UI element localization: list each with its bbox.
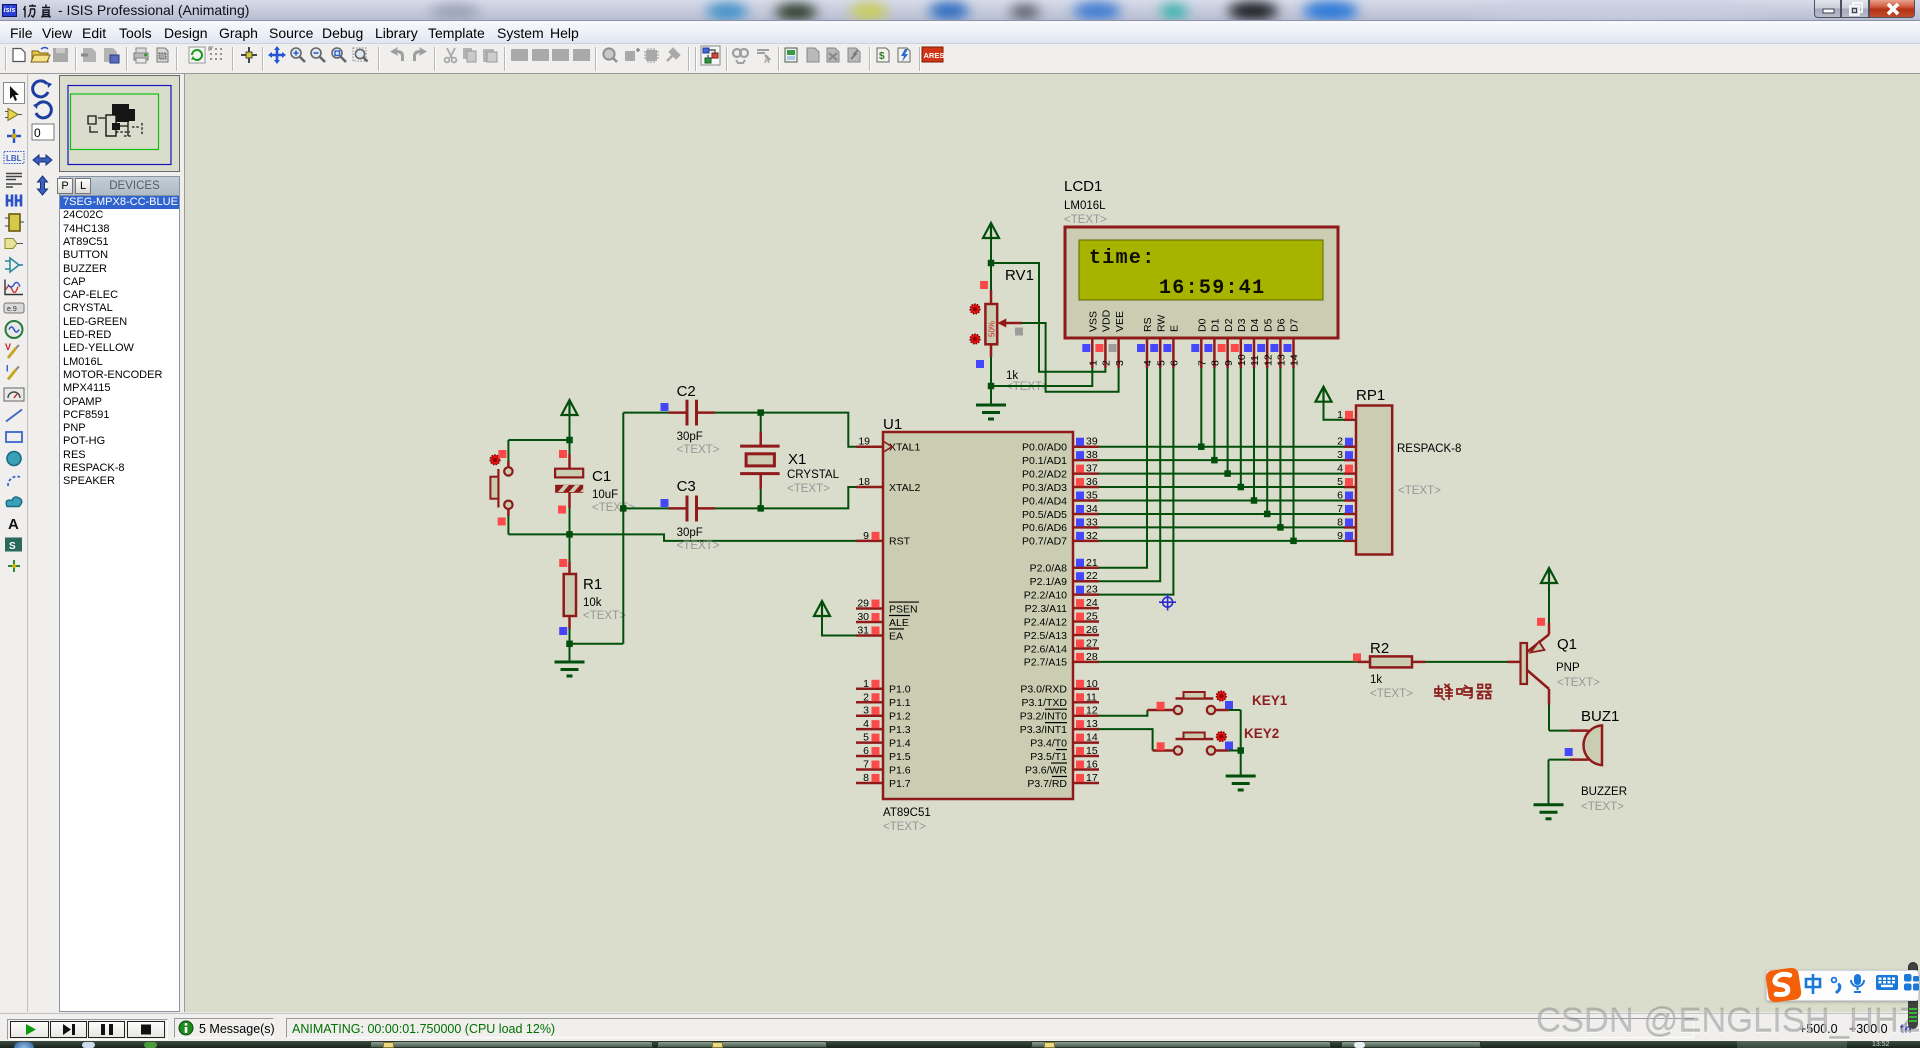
svg-text:6: 6 — [1169, 360, 1181, 366]
svg-text:29: 29 — [857, 598, 869, 610]
svg-text:5: 5 — [863, 732, 869, 744]
svg-text:P0.5/AD5: P0.5/AD5 — [1022, 509, 1067, 521]
svg-text:P1.5: P1.5 — [889, 751, 911, 763]
svg-text:34: 34 — [1086, 503, 1098, 515]
svg-text:ARES: ARES — [924, 51, 945, 60]
svg-text:Q1: Q1 — [1557, 636, 1577, 653]
svg-text:17: 17 — [1086, 772, 1098, 784]
svg-text:P2.4/A12: P2.4/A12 — [1024, 616, 1067, 628]
svg-text:36: 36 — [1086, 476, 1098, 488]
svg-text:S: S — [9, 541, 16, 552]
svg-text:V: V — [5, 342, 11, 352]
svg-text:VSS: VSS — [1088, 311, 1100, 332]
svg-text:LBL: LBL — [6, 154, 22, 163]
svg-text:P2.2/A10: P2.2/A10 — [1024, 589, 1067, 601]
svg-text:KEY2: KEY2 — [1244, 726, 1279, 741]
svg-text:<TEXT>: <TEXT> — [787, 483, 830, 495]
svg-text:RST: RST — [889, 536, 911, 548]
svg-text:P1.4: P1.4 — [889, 737, 911, 749]
svg-text:<TEXT>: <TEXT> — [883, 821, 926, 833]
svg-text:D3: D3 — [1236, 318, 1248, 332]
svg-text:<TEXT>: <TEXT> — [1557, 677, 1600, 689]
svg-text:LM016L: LM016L — [1064, 200, 1106, 212]
svg-text:XTAL1: XTAL1 — [889, 442, 920, 454]
svg-text:P3.2/INT0: P3.2/INT0 — [1020, 711, 1067, 723]
svg-text:3: 3 — [863, 705, 869, 717]
svg-text:13: 13 — [1086, 718, 1098, 730]
svg-text:P3.1/TXD: P3.1/TXD — [1021, 697, 1067, 709]
svg-text:<TEXT>: <TEXT> — [1581, 801, 1624, 813]
svg-text:P1.6: P1.6 — [889, 764, 911, 776]
svg-text:4: 4 — [1142, 360, 1154, 366]
svg-text:P3.5/T1: P3.5/T1 — [1030, 751, 1067, 763]
svg-text:RS: RS — [1142, 317, 1154, 332]
svg-text:21: 21 — [1086, 557, 1098, 569]
svg-text:<TEXT>: <TEXT> — [1370, 688, 1413, 700]
svg-text:P0.2/AD2: P0.2/AD2 — [1022, 468, 1067, 480]
svg-text:P0.1/AD1: P0.1/AD1 — [1022, 455, 1067, 467]
svg-text:12: 12 — [1086, 705, 1098, 717]
svg-text:e.9: e.9 — [7, 306, 17, 313]
svg-text:P0.3/AD3: P0.3/AD3 — [1022, 482, 1067, 494]
svg-text:LCD1: LCD1 — [1064, 178, 1102, 195]
svg-text:30: 30 — [857, 611, 869, 623]
svg-text:7: 7 — [863, 759, 869, 771]
svg-text:P0.6/AD6: P0.6/AD6 — [1022, 522, 1067, 534]
svg-text:P2.3/A11: P2.3/A11 — [1025, 603, 1068, 615]
svg-text:E: E — [1169, 325, 1181, 332]
svg-text:RESPACK-8: RESPACK-8 — [1397, 443, 1461, 455]
svg-text:P2.5/A13: P2.5/A13 — [1024, 630, 1067, 642]
svg-text:<TEXT>: <TEXT> — [677, 540, 720, 552]
svg-text:I: I — [6, 364, 9, 374]
svg-text:BUZZER: BUZZER — [1581, 786, 1627, 798]
svg-text:P0.7/AD7: P0.7/AD7 — [1022, 536, 1067, 548]
svg-text:R1: R1 — [583, 576, 602, 593]
svg-text:C2: C2 — [677, 383, 696, 400]
svg-text:13: 13 — [1276, 354, 1288, 366]
svg-text:14: 14 — [1289, 354, 1301, 366]
svg-text:18: 18 — [858, 476, 870, 488]
svg-text:P2.0/A8: P2.0/A8 — [1030, 563, 1068, 575]
svg-text:2: 2 — [1101, 360, 1113, 366]
svg-text:$: $ — [879, 51, 885, 62]
svg-text:3: 3 — [1114, 360, 1126, 366]
svg-text:8: 8 — [1210, 360, 1222, 366]
svg-text:P3.7/RD: P3.7/RD — [1027, 778, 1067, 790]
svg-text:D4: D4 — [1249, 318, 1261, 332]
svg-text:27: 27 — [1086, 637, 1098, 649]
svg-text:D5: D5 — [1262, 318, 1274, 332]
svg-text:D0: D0 — [1197, 318, 1209, 332]
svg-text:32: 32 — [1086, 530, 1098, 542]
svg-text:P3.0/RXD: P3.0/RXD — [1020, 684, 1067, 696]
svg-text:1: 1 — [1088, 360, 1100, 366]
svg-text:38: 38 — [1086, 449, 1098, 461]
svg-text:P1.2: P1.2 — [889, 711, 911, 723]
svg-text:1k: 1k — [1370, 674, 1382, 686]
svg-text:1: 1 — [863, 678, 869, 690]
svg-text:14: 14 — [1086, 732, 1098, 744]
svg-text:16: 16 — [1086, 759, 1098, 771]
svg-text:16:59:41: 16:59:41 — [1159, 277, 1265, 300]
svg-text:C1: C1 — [592, 468, 611, 485]
svg-text:U1: U1 — [883, 416, 902, 433]
svg-text:AT89C51: AT89C51 — [883, 807, 931, 819]
svg-text:P1.7: P1.7 — [889, 778, 911, 790]
svg-text:10: 10 — [1236, 354, 1248, 366]
svg-text:time:: time: — [1089, 247, 1156, 270]
svg-text:EA: EA — [889, 630, 903, 642]
svg-text:50%: 50% — [988, 321, 997, 337]
svg-text:9: 9 — [863, 530, 869, 542]
svg-text:39: 39 — [1086, 436, 1098, 448]
svg-text:C3: C3 — [677, 478, 696, 495]
svg-text:ALE: ALE — [889, 617, 909, 629]
svg-text:PNP: PNP — [1556, 662, 1580, 674]
svg-text:30pF: 30pF — [677, 431, 703, 443]
svg-text:7: 7 — [1197, 360, 1209, 366]
svg-text:VDD: VDD — [1101, 309, 1113, 332]
svg-text:D2: D2 — [1223, 318, 1235, 332]
svg-text:P3.4/T0: P3.4/T0 — [1030, 737, 1067, 749]
svg-text:VEE: VEE — [1114, 311, 1126, 332]
svg-text:4: 4 — [863, 718, 869, 730]
svg-text:24: 24 — [1086, 597, 1098, 609]
svg-text:25: 25 — [1086, 611, 1098, 623]
svg-text:5: 5 — [1155, 360, 1167, 366]
svg-text:15: 15 — [1086, 745, 1098, 757]
svg-text:<TEXT>: <TEXT> — [1064, 214, 1107, 226]
svg-text:22: 22 — [1086, 570, 1098, 582]
svg-text:26: 26 — [1086, 624, 1098, 636]
svg-text:11: 11 — [1086, 691, 1097, 703]
svg-text:6: 6 — [863, 745, 869, 757]
svg-text:31: 31 — [857, 624, 869, 636]
svg-text:R2: R2 — [1370, 640, 1389, 657]
svg-text:P3.3/INT1: P3.3/INT1 — [1020, 724, 1067, 736]
svg-text:2: 2 — [863, 691, 869, 703]
svg-text:<TEXT>: <TEXT> — [677, 444, 720, 456]
svg-text:XTAL2: XTAL2 — [889, 482, 920, 494]
svg-text:RW: RW — [1155, 315, 1167, 332]
svg-text:33: 33 — [1086, 516, 1098, 528]
svg-text:X1: X1 — [788, 451, 806, 468]
svg-text:RV1: RV1 — [1005, 267, 1034, 284]
svg-text:<TEXT>: <TEXT> — [1398, 485, 1441, 497]
svg-text:P2.6/A14: P2.6/A14 — [1024, 643, 1067, 655]
svg-text:0: 0 — [34, 126, 41, 140]
svg-text:10: 10 — [1086, 678, 1098, 690]
svg-text:P1.0: P1.0 — [889, 684, 911, 696]
svg-text:23: 23 — [1086, 584, 1098, 596]
svg-text:10uF: 10uF — [592, 489, 618, 501]
svg-text:P3.6/WR: P3.6/WR — [1025, 764, 1067, 776]
svg-text:KEY1: KEY1 — [1252, 693, 1288, 708]
svg-text:8: 8 — [863, 772, 869, 784]
svg-text:30pF: 30pF — [677, 527, 703, 539]
svg-text:P0.4/AD4: P0.4/AD4 — [1022, 495, 1067, 507]
svg-text:28: 28 — [1086, 651, 1098, 663]
svg-text:11: 11 — [1249, 355, 1261, 366]
svg-text:9: 9 — [1223, 360, 1235, 366]
svg-text:A: A — [8, 516, 19, 533]
svg-text:CRYSTAL: CRYSTAL — [787, 469, 840, 481]
svg-text:D6: D6 — [1276, 318, 1288, 332]
svg-text:10k: 10k — [583, 597, 602, 609]
svg-text:P1.3: P1.3 — [889, 724, 911, 736]
svg-text:<TEXT>: <TEXT> — [583, 610, 626, 622]
svg-text:P2.7/A15: P2.7/A15 — [1024, 657, 1067, 669]
svg-text:D1: D1 — [1210, 318, 1222, 332]
svg-text:PSEN: PSEN — [889, 603, 918, 615]
svg-text:P2.1/A9: P2.1/A9 — [1030, 576, 1068, 588]
svg-text:BUZ1: BUZ1 — [1581, 708, 1619, 725]
svg-text:P1.1: P1.1 — [889, 697, 911, 709]
svg-text:D7: D7 — [1289, 318, 1301, 332]
svg-text:37: 37 — [1086, 463, 1098, 475]
svg-text:35: 35 — [1086, 490, 1098, 502]
svg-text:12: 12 — [1262, 354, 1274, 366]
svg-text:19: 19 — [858, 436, 870, 448]
svg-text:RP1: RP1 — [1356, 387, 1385, 404]
svg-text:P0.0/AD0: P0.0/AD0 — [1022, 442, 1067, 454]
svg-text:A: A — [764, 56, 770, 65]
